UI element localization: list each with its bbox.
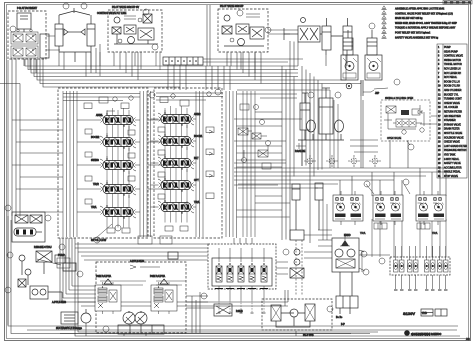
svg-text:PRESSURE SWITCH: PRESSURE SWITCH (444, 150, 467, 152)
svg-text:CONTROL VALVE: CONTROL VALVE (444, 55, 463, 58)
svg-text:TRAVEL MOTOR: TRAVEL MOTOR (444, 63, 462, 66)
svg-text:ACCUMULATOR: ACCUMULATOR (444, 166, 462, 169)
svg-text:HYD TANK: HYD TANK (444, 154, 456, 157)
svg-text:BOOM CYL RH: BOOM CYL RH (444, 86, 460, 88)
svg-text:ARM2: ARM2 (194, 113, 201, 116)
svg-text:SAFETY VALVE ASSEMBLE SET 370: SAFETY VALVE ASSEMBLE SET 370 kg (395, 36, 439, 39)
svg-text:TRVL: TRVL (432, 233, 439, 235)
svg-text:A-PPLN-NEG: A-PPLN-NEG (52, 301, 66, 304)
svg-text:MAIN RELIEF SET 325 kg: MAIN RELIEF SET 325 kg (395, 17, 423, 20)
svg-text:RCV LEVER RH: RCV LEVER RH (444, 73, 461, 75)
svg-text:SAFETY VALVE: SAFETY VALVE (444, 162, 461, 165)
svg-text:B+ B+: B+ B+ (336, 317, 343, 319)
svg-text:TRV2: TRV2 (93, 184, 100, 186)
svg-text:PORT RELIEF SET 297.5 kg/cm2: PORT RELIEF SET 297.5 kg/cm2 (395, 33, 431, 35)
svg-text:CHECK VALVE: CHECK VALVE (444, 141, 460, 144)
svg-text:HYD: HYD (422, 313, 427, 315)
svg-text:P.GAUGE: P.GAUGE (295, 150, 306, 153)
svg-text:TURNING JOINT: TURNING JOINT (444, 99, 462, 101)
svg-text:WHEN SHIP, MAIN SPOOL ASSY TIG: WHEN SHIP, MAIN SPOOL ASSY TIGHTEN 5.5kg… (395, 22, 457, 25)
svg-text:KRRD: KRRD (344, 235, 351, 237)
svg-text:BOOM CYL LH: BOOM CYL LH (444, 81, 460, 83)
svg-text:P.SUB: P.SUB (236, 311, 243, 313)
svg-text:P-M ATTACHMENT: P-M ATTACHMENT (17, 7, 38, 10)
svg-text:BYPASS VALVE: BYPASS VALVE (444, 123, 461, 126)
svg-text:BOOM1: BOOM1 (194, 136, 203, 138)
svg-text:ARM1: ARM1 (96, 114, 103, 117)
svg-text:BKT: BKT (194, 158, 199, 160)
svg-text:PUMP: PUMP (444, 47, 451, 49)
svg-text:S130V: S130V (403, 311, 415, 316)
svg-text:PILOT VALVE GROUP: PILOT VALVE GROUP (220, 5, 244, 8)
svg-text:BUCKET CYL: BUCKET CYL (444, 94, 459, 96)
svg-text:SHUTTLE VALVE: SHUTTLE VALVE (444, 132, 463, 135)
svg-text:STRAINER: STRAINER (444, 119, 456, 122)
svg-text:ARM CYLINDER: ARM CYLINDER (444, 89, 462, 92)
svg-text:SINGLE PEDAL: SINGLE PEDAL (444, 171, 461, 174)
svg-text:TORQUE & ROTATION: APPLY GREAS: TORQUE & ROTATION: APPLY GREASE BEFORE A… (395, 27, 456, 30)
svg-text:CONTROL VALVE PLT LINE: CONTROL VALVE PLT LINE (97, 12, 127, 15)
svg-text:TRVL: TRVL (360, 233, 367, 235)
svg-text:PILOT VALVE GROUP SV: PILOT VALVE GROUP SV (112, 6, 139, 9)
svg-text:TRVL: TRVL (194, 202, 201, 204)
svg-text:P&M P.ALPHA: P&M P.ALPHA (96, 275, 111, 278)
svg-text:RCV LEVER LH: RCV LEVER LH (444, 69, 461, 71)
svg-text:JSP: JSP (375, 93, 380, 95)
svg-text:SWING MOTOR: SWING MOTOR (444, 60, 461, 62)
svg-text:OPT: OPT (194, 180, 199, 182)
svg-text:A-PPLN-NEG: A-PPLN-NEG (130, 260, 144, 263)
svg-text:P&M P.ALPHA: P&M P.ALPHA (150, 275, 165, 278)
svg-text:CHECK VALVE: CHECK VALVE (444, 102, 460, 105)
svg-text:OPEN VALVE: OPEN VALVE (387, 137, 402, 140)
svg-text:S/P OIL FLOW: S/P OIL FLOW (91, 240, 107, 242)
svg-text:SUCT/ASSY-LH P.Gauge: SUCT/ASSY-LH P.Gauge (56, 327, 83, 330)
svg-text:2-WAY PEDAL: 2-WAY PEDAL (444, 158, 460, 161)
svg-text:SOLENOID VALVE: SOLENOID VALVE (444, 136, 464, 139)
svg-text:ASSEMBLE AFTER APPLYING LOCTIT: ASSEMBLE AFTER APPLYING LOCTITE #242 (395, 8, 445, 11)
svg-text:P.BRAKE OTPAJ: P.BRAKE OTPAJ (34, 246, 52, 249)
svg-text:SWING & HOLDING OPEN: SWING & HOLDING OPEN (385, 98, 414, 100)
svg-text:A3: A3 (466, 337, 470, 341)
svg-text:BOOM2: BOOM2 (91, 137, 100, 139)
svg-text:CONTROL VALVE PORT RELIEF SET: CONTROL VALVE PORT RELIEF SET 270kg/cm2 … (395, 12, 453, 15)
svg-text:GEAR PUMP: GEAR PUMP (444, 50, 458, 53)
svg-text:AIR BREATHER: AIR BREATHER (444, 115, 461, 118)
svg-text:LAST GUARD FILTER: LAST GUARD FILTER (444, 145, 467, 148)
svg-text:SWING: SWING (91, 160, 99, 162)
svg-text:RCV PEDAL: RCV PEDAL (444, 76, 458, 79)
svg-text:RETURN FILTER: RETURN FILTER (444, 112, 462, 114)
svg-text:DRAIN FILTER: DRAIN FILTER (444, 128, 460, 131)
svg-text:TRVL: TRVL (91, 207, 98, 209)
svg-text:OIL COOLER: OIL COOLER (444, 107, 458, 109)
svg-text:B-P: B-P (341, 324, 345, 326)
